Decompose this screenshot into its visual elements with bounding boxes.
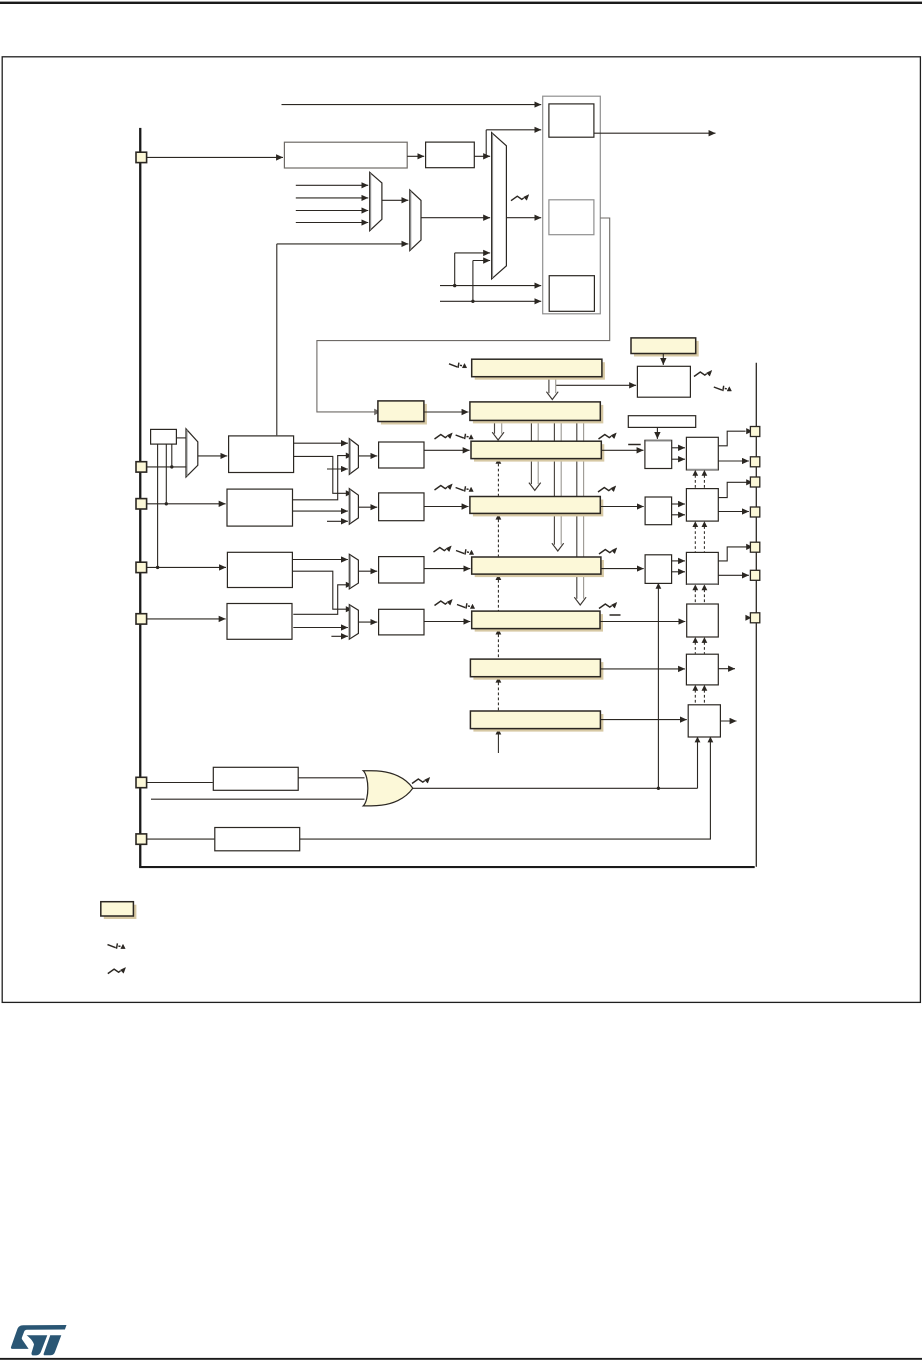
wire TI1FP2 cross down to mux CH2 — [294, 456, 346, 493]
box input filter and edge detector CH3 — [227, 552, 292, 587]
wire TRC stub to mux CH2 — [327, 520, 348, 522]
register capture/compare 4 — [472, 611, 603, 632]
pad OC4 — [750, 613, 759, 623]
box input filter and edge detector CH4 — [227, 604, 292, 640]
wire riser 1 horizontal into M3 — [455, 252, 490, 254]
wire BKIN pin to filter — [147, 782, 213, 784]
arrowhead into OC4 pad — [745, 615, 751, 621]
wire riser to output enable 3 — [657, 584, 659, 788]
wire mux CH3 to prescaler IC3 — [358, 570, 377, 572]
box output box 6 — [688, 705, 720, 737]
box U1 clock controller — [284, 142, 407, 168]
wire enable2 to control2 a — [672, 503, 685, 505]
mux M7 channel 4 — [349, 605, 358, 640]
event symbol slave ctrl — [694, 370, 712, 376]
box trigger controller cell 3 — [549, 276, 594, 312]
wire riser from input filter CH1 top — [276, 244, 278, 435]
wire IC4PS into CC4 register — [424, 621, 470, 623]
box PSC prescaler (yellow) — [378, 401, 427, 425]
wire TI1 pin to M0 — [147, 466, 187, 468]
wire output pin bus right — [755, 363, 757, 867]
event symbol CC4 left — [435, 599, 453, 605]
mux M5 channel 2 — [349, 489, 358, 525]
register capture/compare 1 — [471, 441, 604, 461]
mux M2 (TRGI select) — [410, 190, 421, 251]
footer rule — [0, 1358, 922, 1360]
wire IC1PS into CC1 register — [424, 449, 470, 451]
wire register 5 to output box 5 — [600, 668, 685, 670]
node ETR pin — [136, 834, 147, 844]
transfer arrow counter to CC3 — [552, 420, 564, 551]
wire into trigger controller input 2 — [486, 129, 541, 131]
wire output box 6 arrow — [720, 720, 736, 722]
wire enable1 to control1 b — [672, 458, 685, 460]
event symbol CC3 left — [434, 546, 452, 552]
node CK pin (top-left) — [136, 152, 147, 162]
wire U2 to trigger mux — [474, 155, 490, 157]
wire register 6 to output box 6 — [600, 719, 686, 721]
box brake input filter — [213, 767, 298, 790]
preload transfer arrow auto-reload to counter — [546, 377, 558, 400]
interrupt symbol CC2 left — [456, 486, 474, 491]
box prescaler IC3 — [379, 557, 424, 583]
wire OC1 to pad — [718, 431, 745, 446]
wire OC2N to pad — [718, 511, 749, 513]
wire TI4FP4 to mux CH4 — [293, 627, 348, 629]
wire ITR2 input — [296, 210, 368, 212]
junction riser2 — [471, 300, 474, 303]
wire ITR0 input — [296, 184, 368, 186]
register capture/compare 3 — [472, 557, 604, 577]
register counter CNT — [470, 402, 603, 424]
dashed links between output controls — [694, 475, 696, 488]
wire M3 output to trigger controller — [506, 217, 541, 219]
box output control 2 — [686, 489, 718, 521]
wire OC3 to pad — [718, 547, 747, 561]
wire riser 1 to M3 — [454, 253, 456, 286]
wire TI3 pin to input filter 3 — [147, 566, 226, 568]
mux M4 channel 1 — [349, 439, 358, 475]
box output box 5 — [686, 654, 718, 685]
wire ETR pin to filter — [147, 838, 215, 840]
wire CC1 to output enable 1 — [601, 449, 643, 451]
wire TRC stub to mux CH1 — [327, 468, 348, 470]
interrupt symbol CC1 left — [456, 434, 474, 439]
wire OC1N to pad — [718, 460, 749, 462]
wire CC2 to output enable 2 — [600, 506, 643, 508]
node TI3 pin — [136, 562, 147, 572]
interrupt symbol CC4 left — [457, 603, 475, 608]
register channel 5 — [470, 659, 603, 680]
register auto-reload — [472, 359, 605, 380]
wire TI4 pin to input filter 4 — [147, 618, 226, 620]
transfer arrow counter to CC1 — [492, 420, 504, 440]
wire riser 2 horizontal into M3 — [473, 260, 490, 262]
wire mux CH2 to prescaler IC2 — [358, 506, 377, 508]
event symbol CC1 left — [435, 433, 453, 439]
wire TI3FP3 to mux CH3 — [292, 559, 348, 561]
wire OC1REF dash — [628, 444, 641, 446]
wire IC2PS into CC2 register — [424, 506, 469, 508]
event symbol OR output — [412, 777, 430, 783]
wire enable1 to control1 a — [672, 447, 685, 449]
wire TI2 pin to input filter 2 — [147, 503, 226, 505]
figure frame — [2, 57, 920, 1003]
wire filter to OR gate — [298, 777, 364, 779]
wire branch up from U2 output — [485, 130, 487, 157]
wire M2 to big mux M3 — [421, 217, 490, 219]
wire capture line dashed (up arrows into register bottoms) — [497, 464, 499, 496]
box slave mode controller — [637, 366, 690, 397]
event symbol CC2 left — [435, 484, 453, 490]
register channel 6 — [470, 711, 603, 732]
box ETR polarity/filter — [215, 828, 300, 851]
box output control 3 — [686, 552, 718, 584]
wire M0 to input filter 1 — [198, 455, 227, 457]
wire U event into slave controller — [556, 384, 636, 386]
box U2 prescaler stage — [426, 142, 475, 168]
transfer arrow counter to CC2 — [529, 420, 541, 490]
wire TRC down to slave controller — [662, 354, 664, 365]
legend preload register sample — [101, 902, 137, 919]
wire ETRF line 1 — [440, 285, 541, 287]
node TI1 pin — [136, 462, 147, 472]
OR gate G1 — [363, 771, 413, 806]
header rule — [0, 2, 922, 4]
wire OR output up into output box 6 — [697, 737, 699, 788]
wire thick peripheral bus bottom — [139, 866, 755, 868]
junction OR output to enable riser — [657, 787, 660, 790]
pad OC1N — [750, 457, 759, 467]
interrupt symbol CC3 left — [456, 549, 474, 554]
node TI2 pin — [136, 499, 147, 509]
mux M1 (ITR select) — [370, 172, 382, 230]
wire XOR input stubs from TI pins — [171, 444, 173, 467]
wire enable2 to control2 b — [672, 514, 685, 516]
wire TRGO output to other timers — [594, 132, 716, 134]
junction TI1-XOR — [170, 465, 173, 468]
junction TI2-XOR — [165, 502, 168, 505]
mux M3 (trigger/clock select) — [492, 133, 507, 279]
junction TI3-XOR — [156, 566, 159, 569]
wire OC4REF dash — [610, 614, 621, 616]
wire ETR filter to output box 6 — [300, 737, 711, 839]
wire ITR3 input — [296, 222, 368, 224]
transfer arrow counter to CC4 — [574, 420, 586, 605]
wire ITR1 input — [296, 197, 368, 199]
event symbol CC2 right — [598, 486, 616, 492]
box output control 4 — [687, 604, 719, 637]
mux M6 channel 3 — [349, 554, 358, 589]
box trigger controller cell 1 — [549, 104, 594, 137]
wire XOR to M0 — [176, 437, 186, 439]
wire clock fail input to OR — [151, 798, 365, 800]
legend interrupt and DMA symbol — [108, 943, 126, 948]
mux M0 (TI1 xor select) — [186, 429, 198, 477]
wire output box 5 arrow — [718, 668, 735, 670]
legend event symbol — [108, 968, 126, 974]
wire into output enable 1 top — [656, 427, 658, 439]
wire TI1FP1 to mux CH1 — [294, 442, 348, 444]
node TI4 pin — [136, 614, 147, 624]
ST logo — [11, 1325, 67, 1355]
box trigger controller cell 2 — [549, 200, 594, 235]
interrupt symbol slave ctrl — [714, 386, 732, 391]
wire OC2 to pad — [718, 482, 747, 497]
box trigger controller outer — [543, 96, 601, 314]
wire internal clock top into trigger block — [282, 104, 542, 106]
box output enable 2 — [645, 497, 672, 525]
box XOR TI1S — [151, 429, 177, 444]
wire CK_CNT into counter — [424, 411, 469, 413]
pad OC1 — [750, 427, 759, 437]
wire enable3 to control3 a — [672, 560, 685, 562]
box input filter and edge detector CH1 — [229, 436, 294, 473]
wire CC3 to output enable 3 — [601, 568, 644, 570]
wire TI4FP3 cross up to mux CH3 — [293, 585, 346, 615]
node BKIN pin — [136, 777, 147, 787]
box output control 1 — [686, 437, 718, 470]
wire OC3N to pad — [718, 574, 749, 576]
wire mux CH4 to prescaler IC4 — [358, 621, 377, 623]
wire OR output — [413, 787, 698, 789]
box TRC (yellow) — [631, 338, 699, 357]
wire TI2FP1 cross up to mux CH1 — [293, 456, 347, 500]
wire TRC stub to mux CH4 — [331, 635, 348, 637]
pad OC2N — [750, 507, 759, 517]
event symbol CC1 right — [599, 433, 617, 439]
wire thick peripheral bus left — [139, 128, 141, 867]
wire TI1 edge line into M2 — [277, 243, 409, 245]
box output enable 3 — [645, 555, 672, 584]
pad OC3 — [750, 542, 759, 552]
box output enable 1 — [645, 440, 672, 468]
pad OC3N — [750, 570, 759, 580]
wire IC3PS into CC3 register — [424, 568, 470, 570]
event symbol CC4 right — [599, 602, 617, 608]
wire TI3FP4 cross down to mux CH4 — [292, 571, 346, 609]
box prescaler IC1 — [379, 442, 424, 468]
wire riser 2 to M3 — [472, 261, 474, 302]
wire ETRF line 2 — [440, 300, 541, 302]
pad OC2 — [750, 477, 759, 487]
wire enable3 to control3 b — [672, 571, 685, 573]
wire CK pin to clock box U1 — [147, 156, 283, 158]
wire TI2FP2 to mux CH2 — [293, 510, 348, 512]
event symbol CC3 right — [599, 548, 617, 554]
wire M1 to M2 — [382, 199, 408, 201]
event symbol at M3 — [511, 195, 529, 201]
box input filter and edge detector CH2 — [227, 489, 293, 526]
box prescaler IC4 — [379, 609, 424, 635]
wire CC4 to output control 4 — [600, 621, 685, 623]
interrupt symbol auto-reload — [449, 363, 467, 368]
wire cell2 output to prescaler feed — [317, 218, 610, 412]
box output mode reference — [628, 416, 695, 428]
wire mux CH1 to prescaler IC1 — [358, 455, 377, 457]
wire U1 to U2 — [407, 155, 424, 157]
register capture/compare 2 — [470, 497, 603, 517]
junction riser1 — [453, 284, 456, 287]
box prescaler IC2 — [379, 493, 424, 521]
